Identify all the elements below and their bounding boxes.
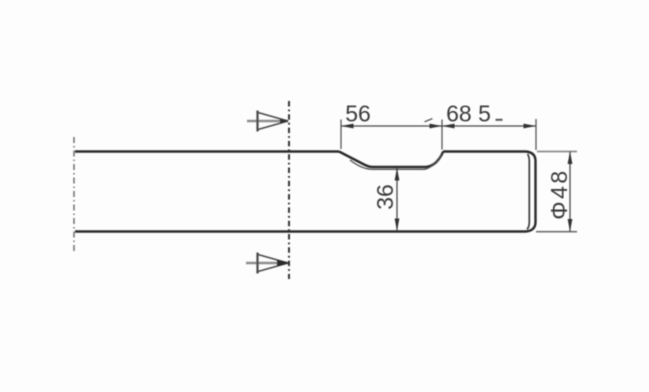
part outline bottom edge — [75, 230, 526, 232]
arrow at 56 right — [430, 124, 443, 129]
arrow at 56 left — [341, 124, 354, 129]
lower section arrow: open head — [258, 255, 288, 272]
dim phi48: top extension line — [537, 151, 577, 153]
left break centerline (dash-dot) — [73, 137, 75, 252]
svg-text:Φ48: Φ48 — [546, 168, 572, 219]
lower section arrow: shaft — [246, 262, 288, 265]
svg-text:56: 56 — [345, 101, 371, 127]
groove left slope — [339, 152, 373, 168]
svg-text:36: 36 — [372, 184, 398, 210]
svg-text:68 5: 68 5 — [446, 101, 491, 127]
end chamfer inner line — [527, 154, 529, 229]
dim 56/68.5: shared extension line — [441, 120, 443, 150]
dim line 56 + 68.5 — [341, 125, 536, 127]
upper section arrow: shaft — [247, 120, 288, 123]
dim 56: extension line left — [340, 120, 342, 150]
groove flat bottom — [373, 166, 426, 168]
arrow at 68.5 right — [524, 124, 537, 129]
stray dash after 5 — [496, 119, 503, 121]
dim 68.5: extension line right — [535, 119, 537, 150]
lower section arrow: apex tip — [277, 260, 290, 266]
part outline top edge left — [75, 150, 339, 152]
right end cap — [526, 152, 536, 232]
upper section arrow: base bar — [256, 111, 258, 132]
groove inner double line — [350, 155, 442, 169]
dim 36: top arrow — [395, 168, 400, 181]
dim phi48: top arrow — [568, 152, 573, 165]
upper section arrow: open head — [258, 113, 288, 130]
dim phi48: dimension line — [569, 152, 571, 232]
lower section arrow: base bar — [256, 253, 258, 274]
dim phi48: bottom extension line — [536, 231, 577, 233]
groove right slope — [426, 152, 443, 168]
stray tick left of 68 — [425, 119, 433, 122]
arrow at 68.5 left — [442, 124, 455, 129]
part outline top edge right — [443, 150, 526, 152]
dim 36: dimension line — [396, 168, 398, 231]
dim 36: bottom arrow — [395, 219, 400, 232]
dim phi48: bottom arrow — [568, 219, 573, 232]
vertical centerline (dash-dot) — [288, 101, 290, 279]
upper section arrow: apex tip — [280, 119, 289, 124]
